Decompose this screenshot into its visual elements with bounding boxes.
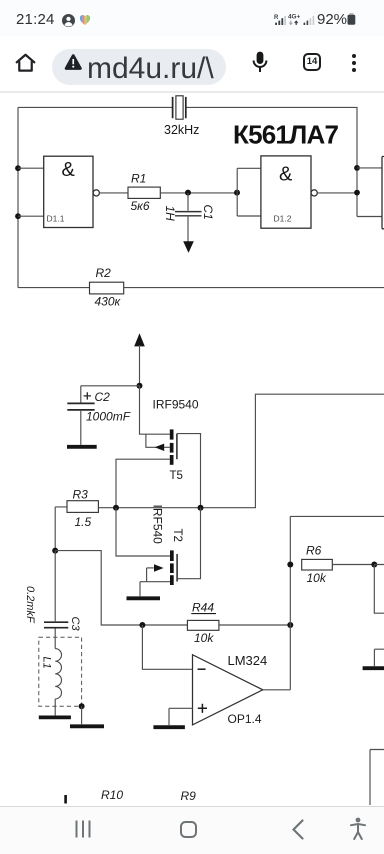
wire: DD1.1 out to R1 [99, 192, 128, 194]
node: R44 left [139, 622, 145, 628]
wire: R1 to DD1.2 input [160, 192, 237, 194]
battery [347, 13, 356, 25]
svg-text:R2: R2 [96, 266, 112, 280]
svg-text:L1: L1 [41, 657, 53, 669]
svg-text:1Н: 1Н [163, 206, 177, 222]
wire: top oscillator loop right [186, 107, 357, 216]
svg-text:IRF540: IRF540 [151, 505, 165, 545]
power arrow V+ [134, 333, 145, 386]
transistor T2 IRF540 [140, 505, 183, 597]
svg-text:4G+: 4G+ [288, 14, 300, 21]
wire: shield to ground [81, 706, 83, 724]
svg-text:1.5: 1.5 [75, 515, 92, 529]
svg-text:R: R [274, 15, 279, 21]
ground: L1 [39, 716, 71, 720]
wire: node row [98, 394, 384, 508]
svg-text:T5: T5 [170, 470, 183, 482]
roaming signal [274, 14, 286, 26]
resistor R6 10k [302, 544, 333, 586]
ground: opamp plus [153, 725, 185, 729]
wire: R6 right [332, 564, 374, 566]
wire: R2 row left [18, 287, 90, 289]
svg-text:R6: R6 [306, 544, 322, 558]
inductor L1 [41, 649, 62, 716]
crystal ZQ1 32kHz [173, 96, 186, 119]
gate DD1.2 [261, 156, 317, 228]
svg-text:R1: R1 [131, 172, 146, 186]
box: bottom right partial [370, 750, 384, 806]
node: DD1.1 input junction bottom [15, 213, 21, 219]
wire: left rail down to R2 row [17, 107, 19, 287]
shield box dashed [39, 637, 82, 706]
back chevron [292, 819, 304, 840]
svg-text:5к6: 5к6 [131, 199, 150, 213]
wire: supply down to T5 [140, 386, 170, 434]
node: R6 right [371, 562, 377, 568]
wire: DD1.2 out to right rail [317, 192, 357, 194]
wire: opamp plus input [169, 708, 193, 725]
node: supply junction [137, 383, 143, 389]
svg-text:IRF9540: IRF9540 [153, 398, 199, 412]
node: feedback [287, 622, 293, 628]
wire: right edge ground stub [374, 649, 384, 666]
svg-text:OP1.4: OP1.4 [228, 712, 262, 726]
node: right rail upper [354, 165, 360, 171]
tab counter [303, 53, 321, 71]
wire: opamp output [263, 689, 291, 691]
wire: R44 to feedback node [219, 624, 290, 626]
resistor R2 430к [90, 266, 124, 309]
warning triangle [64, 54, 83, 70]
ground: right edge [363, 666, 384, 670]
ground: C1 arrow [183, 241, 194, 253]
node: DD1.2 input tie [234, 190, 240, 196]
heart app icon [78, 13, 92, 27]
wire: R44 left node to opamp minus [142, 625, 192, 669]
3-dot menu [351, 53, 357, 73]
svg-text:C2: C2 [95, 390, 111, 404]
resistor R44 10k [187, 601, 219, 646]
svg-text:0.2mkF: 0.2mkF [24, 586, 36, 624]
svg-text:T2: T2 [171, 529, 183, 542]
svg-text:R10: R10 [101, 788, 123, 802]
svg-text:430к: 430к [95, 295, 122, 309]
svg-text:1000mF: 1000mF [86, 410, 131, 424]
home icon [14, 51, 37, 74]
svg-text:К561ЛА7: К561ЛА7 [233, 120, 338, 150]
resistor R3 1.5 [55, 488, 98, 551]
svg-text:10k: 10k [194, 631, 214, 645]
capacitor C1 1H [163, 193, 215, 242]
gate DD1.3 partial [382, 157, 384, 229]
home squircle [180, 821, 197, 838]
resistor R1 5к6 [128, 172, 160, 214]
wire: DD1.2 input tie [237, 168, 261, 216]
svg-text:C1: C1 [201, 205, 215, 220]
wire: T5 drain to output rail [116, 459, 170, 508]
svg-text:R9: R9 [181, 789, 197, 803]
node: C1 tap [185, 190, 191, 196]
svg-text:LM324: LM324 [228, 653, 268, 668]
person notification icon [62, 14, 75, 27]
node: DD1.1 input junction top [15, 165, 21, 171]
ground: shield [70, 724, 104, 728]
accessibility person [350, 817, 366, 840]
mic icon [252, 51, 268, 73]
node: gate rail [198, 505, 204, 511]
transistor T5 IRF9540 [146, 398, 199, 483]
node: right rail lower [354, 190, 360, 196]
capacitor C2 1000mF [67, 390, 130, 445]
node: shield ground tap [79, 703, 85, 709]
4G+ arrows [288, 13, 300, 26]
svg-text:10k: 10k [307, 571, 327, 585]
wire: supply to C2 [81, 386, 140, 403]
wire: R2 row right [124, 287, 384, 289]
node: output rail [113, 505, 119, 511]
wire: T2 drain to output rail [116, 508, 170, 556]
ground: T2 source [127, 596, 161, 600]
svg-text:&: & [62, 159, 76, 181]
svg-text:R3: R3 [73, 488, 89, 502]
svg-text:&: & [279, 164, 293, 186]
wire: DD1.1 input stubs [18, 168, 44, 216]
svg-text:R44: R44 [192, 601, 214, 615]
recents ||| [74, 820, 92, 838]
wire: T2 gate to gate rail [177, 508, 200, 579]
wire: node to R44 row [55, 551, 187, 625]
gate DD1.1 [44, 156, 100, 227]
op-amp U1 LM324 OP1.4 [193, 653, 268, 726]
wire: top oscillator loop left [18, 106, 172, 108]
node: R3 left / C3 top [52, 548, 58, 554]
node: R6 left [287, 562, 293, 568]
ground: C2 [67, 445, 97, 449]
URL pill [52, 49, 226, 85]
capacitor C3 [44, 617, 81, 649]
wire: C3 feed [54, 551, 56, 622]
svg-text:D1.1: D1.1 [47, 214, 65, 224]
wire: T5 gate to gate rail [177, 434, 201, 508]
wire: R6 right node stubs [374, 565, 384, 614]
svg-text:D1.2: D1.2 [274, 214, 292, 224]
wire: right rail R6 column [290, 516, 384, 689]
svg-text:C3: C3 [69, 617, 81, 632]
capacitor plate tick bottom [64, 795, 67, 804]
wire: stubs to DD1.3 [357, 168, 382, 217]
svg-text:32kHz: 32kHz [164, 123, 199, 137]
wifi-ish signal 2 [303, 14, 315, 26]
